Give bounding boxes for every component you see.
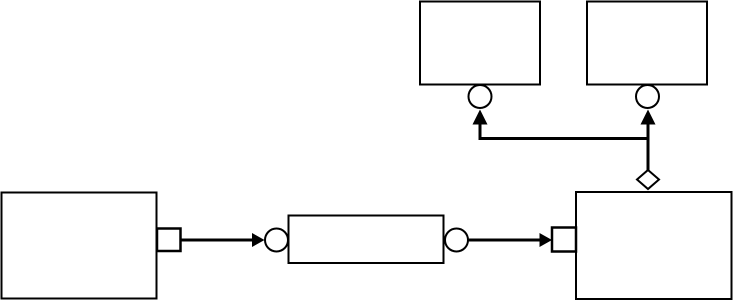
port P2 (left edge of B4): [552, 228, 576, 252]
component box B5 (middle): [289, 216, 444, 264]
port P1 (right edge of B3): [157, 229, 181, 252]
component box B1 (top-left): [420, 2, 540, 85]
wire W4 (vertical from diamond to I2): [647, 122, 650, 171]
arrowhead A1 (into I3): [252, 233, 265, 247]
arrowhead A4 (into I2): [641, 110, 656, 125]
component box B4 (bottom-right): [576, 192, 732, 299]
wire W3 (branch from diamond up-left to I1): [480, 122, 650, 139]
aggregation diamond D1 (top of B4): [637, 170, 659, 189]
wire W1 (port P1 to interface I3): [181, 239, 253, 242]
lollipop interface circle I1 (under B1): [469, 85, 492, 108]
lollipop interface circle I4 (right of B5): [445, 229, 468, 252]
lollipop interface circle I3 (left of B5): [265, 229, 288, 252]
lollipop interface circle I2 (under B2): [636, 85, 659, 108]
arrowhead A2 (into P2): [540, 233, 553, 247]
arrowhead A3 (into I1): [473, 110, 488, 125]
wire W2 (interface I4 to port P2): [468, 239, 541, 242]
component box B2 (top-right): [587, 2, 707, 85]
component box B3 (bottom-left): [2, 193, 157, 299]
